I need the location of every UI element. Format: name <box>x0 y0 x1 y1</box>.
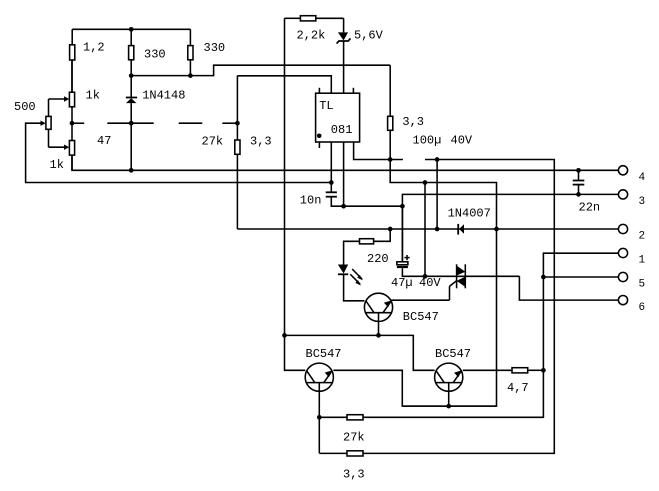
transistor Q1 BC547 top <box>364 293 392 335</box>
capacitor 100u (drawn as gap) right plate wire to long rail <box>319 160 554 454</box>
svg-text:10n: 10n <box>300 194 322 208</box>
wire main left rail <box>285 18 306 370</box>
node junction pots wiper <box>70 121 75 126</box>
resistor 4,7 <box>463 368 544 373</box>
terminal 5 <box>618 272 627 281</box>
svg-text:47: 47 <box>97 134 111 148</box>
node junction 330b bottom <box>188 73 193 78</box>
wire dashed link <box>72 122 237 124</box>
resistor 330 b <box>188 29 193 75</box>
wire 27k col top to opamp pin <box>237 76 331 93</box>
terminal 2 <box>618 224 627 233</box>
svg-text:1k: 1k <box>86 89 100 103</box>
svg-text:3: 3 <box>639 196 646 208</box>
node junction rail2 / terminal2 <box>494 227 499 232</box>
svg-text:27k: 27k <box>202 134 224 148</box>
transistor Q3 BC547 right <box>435 363 463 406</box>
node junction 22n bottom <box>576 192 581 197</box>
svg-text:1: 1 <box>639 254 646 266</box>
potentiometer 1k lower <box>64 141 75 171</box>
wire 330 bottom bus <box>131 65 390 75</box>
resistor 1,2 <box>70 29 75 92</box>
svg-text:22n: 22n <box>579 201 601 215</box>
svg-text:3,3: 3,3 <box>402 115 424 129</box>
wire 100u col down <box>436 160 438 230</box>
triac Q4 <box>450 264 466 300</box>
wire top-left rail <box>72 28 190 30</box>
node junction 330a bottom <box>129 73 134 78</box>
svg-text:220: 220 <box>367 252 389 266</box>
node junction 100u right <box>435 157 440 162</box>
node junction dashed right end <box>235 121 240 126</box>
wire Q2 emitter step <box>333 370 496 406</box>
svg-text:1,2: 1,2 <box>83 41 105 55</box>
node junction 47u feed <box>423 180 428 185</box>
svg-text:6: 6 <box>639 302 646 314</box>
node junction diode / dashed <box>129 121 134 126</box>
wire 3,3 bottom down right <box>390 160 496 407</box>
svg-text:BC547: BC547 <box>435 347 471 361</box>
capacitor 47u <box>397 206 520 276</box>
svg-text:5,6V: 5,6V <box>354 29 384 43</box>
wire terminal1 line <box>363 253 618 417</box>
svg-text:3,3: 3,3 <box>343 468 365 482</box>
node junction diode bottom rail <box>129 168 134 173</box>
node junction 4,7 <box>541 368 546 373</box>
LED D1 <box>338 265 365 301</box>
node junction 10n top <box>329 180 334 185</box>
wire bottom rail to terminal 4 <box>72 155 618 171</box>
svg-text:081: 081 <box>331 123 353 137</box>
terminal 1 <box>618 248 627 257</box>
resistor 27k bottom <box>319 415 363 420</box>
wire 47u col vertical <box>424 183 426 277</box>
svg-text:1N4007: 1N4007 <box>448 207 491 221</box>
transistor Q2 BC547 left <box>305 363 333 453</box>
svg-text:5: 5 <box>639 278 646 290</box>
diode 1N4148 <box>126 76 137 171</box>
resistor 330 a <box>129 29 134 75</box>
svg-text:TL: TL <box>319 99 333 113</box>
terminal 6 <box>618 296 627 305</box>
potentiometer 500 <box>41 99 52 147</box>
svg-text:4: 4 <box>639 172 646 184</box>
svg-text:330: 330 <box>204 41 226 55</box>
node junction t5 <box>541 275 546 280</box>
resistor 27k / 3,3 mid column <box>235 76 240 229</box>
capacitor 22n <box>573 170 585 194</box>
wire opamp out <box>354 142 403 160</box>
svg-text:500: 500 <box>14 100 36 114</box>
resistor 2,2k <box>285 16 344 21</box>
node junction 330a top <box>129 27 134 32</box>
wire terminal3 line <box>402 194 618 206</box>
node junction opamp out / 3,3 <box>388 157 393 162</box>
svg-text:100µ: 100µ <box>413 133 442 147</box>
svg-text:2: 2 <box>639 230 646 242</box>
svg-text:3,3: 3,3 <box>250 134 272 148</box>
resistor 220 <box>344 229 391 265</box>
wire 500 top to pot1 wiper <box>49 98 65 100</box>
node junction 1N4007 line <box>435 227 440 232</box>
wire terminal5 line <box>543 276 618 278</box>
svg-text:BC547: BC547 <box>306 347 342 361</box>
node junction base right <box>446 404 451 409</box>
svg-text:330: 330 <box>144 48 166 62</box>
op-amp U1 TL081 <box>316 88 360 148</box>
wire terminal2 line <box>237 228 618 230</box>
svg-text:1N4148: 1N4148 <box>142 88 185 102</box>
node junction base left / 27k <box>317 415 322 420</box>
node junction 22n top <box>576 168 581 173</box>
node junction 47u bottom <box>423 274 428 279</box>
svg-text:27k: 27k <box>343 431 365 445</box>
diode 1N4007 <box>458 224 464 235</box>
resistor 3,3 bottom <box>347 451 363 456</box>
resistor 3,3 opamp <box>388 65 393 159</box>
wire triac right step to terminal 6 <box>519 276 618 300</box>
svg-text:47µ: 47µ <box>391 276 413 290</box>
terminal 4 <box>618 166 627 175</box>
node junction rail / base line <box>282 333 287 338</box>
diode zener 5,6V <box>337 18 351 93</box>
wire Q1 emitter to gate <box>391 299 449 301</box>
svg-text:40V: 40V <box>419 276 441 290</box>
potentiometer 1k upper <box>64 60 75 141</box>
wire 500 wiper <box>26 123 332 182</box>
svg-text:4,7: 4,7 <box>507 381 529 395</box>
node junction 10n line / 47u col <box>400 204 405 209</box>
wire opamp pin down <box>343 142 345 206</box>
wire 47u col <box>401 206 403 262</box>
svg-text:40V: 40V <box>451 133 473 147</box>
svg-text:BC547: BC547 <box>403 310 439 324</box>
wire 500 bottom to pot2 wiper <box>49 146 65 148</box>
capacitor 10n <box>326 142 403 206</box>
svg-text:1k: 1k <box>50 158 64 172</box>
terminal 3 <box>618 190 627 199</box>
wire base cross line <box>285 335 435 370</box>
node junction 10n bottom opamp pin <box>341 204 346 209</box>
svg-text:2,2k: 2,2k <box>297 29 326 43</box>
node junction 220 branch <box>388 227 393 232</box>
node junction Q1 base <box>376 333 381 338</box>
